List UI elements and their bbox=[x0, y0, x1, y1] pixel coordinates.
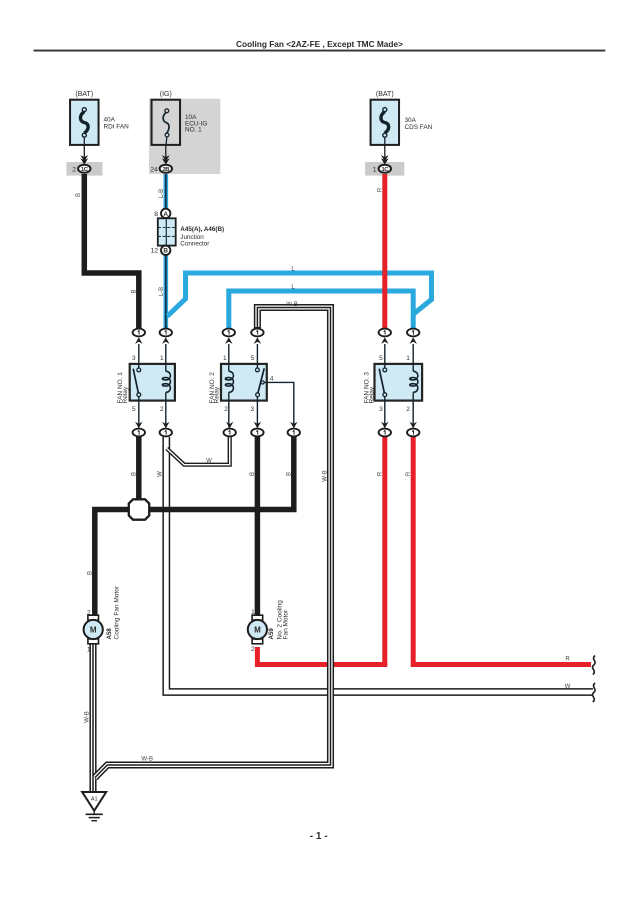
relay2 pin4 lead bbox=[264, 382, 294, 427]
relay1 pin5 lead bbox=[138, 397, 140, 428]
svg-text:(IG): (IG) bbox=[160, 91, 172, 98]
svg-text:2: 2 bbox=[406, 406, 410, 413]
wire L (lower): relay2 pin1 to relay3 pin1 bbox=[229, 291, 413, 328]
svg-text:NO. 1: NO. 1 bbox=[185, 127, 202, 134]
connector arrow relay3 pin1 top bbox=[410, 337, 417, 344]
connector oval relay2 pin5 top bbox=[251, 329, 263, 337]
svg-text:RDI FAN: RDI FAN bbox=[104, 124, 130, 131]
svg-text:B: B bbox=[131, 472, 137, 476]
relay2 switch contacts bbox=[256, 368, 260, 372]
svg-text:Relay: Relay bbox=[122, 386, 129, 403]
gray background block behind ECU-IG fuse bbox=[149, 99, 220, 174]
fuse 30A CDS FAN bbox=[371, 100, 400, 145]
svg-text:3: 3 bbox=[379, 406, 383, 413]
svg-text:A1: A1 bbox=[91, 796, 98, 802]
relay1 pin3 lead bbox=[138, 344, 140, 368]
wire R: relay3 pin2 down bbox=[413, 437, 591, 665]
svg-text:M: M bbox=[254, 625, 261, 634]
connector oval relay3 pin2 bottom bbox=[407, 429, 419, 437]
connector oval relay3 pin1 top bbox=[407, 329, 419, 337]
svg-text:L-B: L-B bbox=[159, 287, 165, 296]
svg-text:B: B bbox=[131, 289, 137, 293]
relay3 coil bbox=[412, 344, 414, 371]
svg-text:Cooling Fan <2AZ-FE , Except T: Cooling Fan <2AZ-FE , Except TMC Made> bbox=[236, 39, 403, 49]
wire B: fuse RDI FAN to relay1 pin3 bbox=[84, 174, 139, 328]
fuse lead ECU-IG bbox=[165, 145, 167, 162]
break symbol R wire bbox=[592, 656, 595, 675]
svg-text:R: R bbox=[565, 656, 570, 662]
svg-text:- 1 -: - 1 - bbox=[310, 831, 328, 842]
svg-text:Cooling Fan Motor: Cooling Fan Motor bbox=[114, 585, 121, 639]
svg-text:12: 12 bbox=[150, 248, 158, 255]
svg-text:R: R bbox=[378, 187, 384, 192]
svg-text:R: R bbox=[378, 471, 384, 476]
wire W-B: relay2 pin5 right, down, to ground bbox=[95, 308, 331, 778]
svg-text:B: B bbox=[163, 248, 168, 255]
svg-text:R: R bbox=[406, 471, 412, 476]
svg-text:3: 3 bbox=[250, 406, 254, 413]
svg-text:1: 1 bbox=[373, 166, 377, 173]
wire L-B: fuse ECU-IG to relay1 pin1 (blue with black stripe) bbox=[164, 174, 169, 328]
svg-text:W: W bbox=[565, 684, 571, 690]
connector arrow relay2 pin2 bottom bbox=[226, 422, 233, 429]
wire W-B: motor1 to ground bbox=[89, 643, 96, 793]
svg-text:W: W bbox=[206, 459, 212, 465]
wire R: motor2 to right break bbox=[257, 647, 387, 665]
connector oval relay2 pin4 bottom bbox=[288, 429, 300, 437]
svg-text:2: 2 bbox=[251, 646, 255, 653]
gray band behind connector 1C (left) bbox=[67, 162, 103, 176]
relay FAN NO.1 box bbox=[130, 364, 175, 401]
svg-text:(BAT): (BAT) bbox=[75, 91, 93, 98]
fuse 40A RDI FAN bbox=[70, 100, 99, 145]
connector oval relay2 pin1 top bbox=[223, 329, 235, 337]
junction connector A45(A) A46(B) box bbox=[158, 218, 176, 245]
connector arrow relay2 pin3 bottom bbox=[254, 422, 261, 429]
connector arrow relay2 pin1 top bbox=[225, 337, 232, 344]
svg-text:A58: A58 bbox=[106, 628, 113, 640]
connector arrow relay1 pin5 bottom bbox=[135, 422, 142, 429]
svg-text:1: 1 bbox=[223, 355, 227, 362]
relay2 pin5 lead bbox=[256, 344, 258, 368]
motor M A58 Cooling Fan Motor bbox=[84, 615, 103, 644]
svg-text:5: 5 bbox=[132, 406, 136, 413]
svg-text:8: 8 bbox=[154, 211, 158, 218]
motor M A59 No.2 Cooling Fan Motor bbox=[248, 615, 267, 644]
svg-text:W-B: W-B bbox=[141, 757, 153, 763]
svg-text:CDS FAN: CDS FAN bbox=[405, 124, 433, 131]
relay2 switch blade bbox=[258, 368, 264, 393]
svg-text:Fan Motor: Fan Motor bbox=[283, 609, 290, 639]
connector arrow relay3 pin5 top bbox=[381, 337, 388, 344]
svg-text:5: 5 bbox=[379, 355, 383, 362]
relay FAN NO.2 box bbox=[221, 364, 267, 401]
fuse 10A ECU-IG NO.1 bbox=[152, 100, 181, 145]
connector arrow relay2 pin5 top bbox=[254, 337, 261, 344]
connector oval relay1 pin2 bottom bbox=[160, 429, 172, 437]
svg-text:L-B: L-B bbox=[159, 189, 165, 198]
connector 1C left (2) bbox=[78, 165, 90, 173]
svg-text:1: 1 bbox=[160, 355, 164, 362]
svg-text:W: W bbox=[158, 471, 164, 477]
relay1 switch contacts bbox=[137, 368, 141, 372]
splice octagon bbox=[129, 499, 149, 519]
wire R: relay3 pin3 down bbox=[382, 437, 387, 665]
relay2 coil bbox=[228, 344, 230, 371]
relay3 pin3 lead bbox=[384, 397, 386, 428]
svg-text:M: M bbox=[90, 625, 97, 634]
svg-text:W-B: W-B bbox=[323, 470, 329, 482]
wire W: relay1 pin2 down, right to break (white wire, double line) bbox=[166, 437, 593, 692]
connector oval relay2 pin2 bottom bbox=[224, 429, 236, 437]
wire B: relay2 pin4 down, splice horizontal, to motor1 bbox=[95, 437, 294, 617]
connector 2B (24) bbox=[160, 165, 172, 173]
svg-text:1: 1 bbox=[87, 647, 91, 654]
connector oval relay1 pin3 top bbox=[133, 329, 145, 337]
junction node A (8) bbox=[161, 209, 170, 218]
svg-text:24: 24 bbox=[150, 166, 158, 173]
svg-text:Connector: Connector bbox=[180, 241, 209, 248]
svg-text:(BAT): (BAT) bbox=[376, 91, 394, 98]
connector arrow relay1 pin3 top bbox=[135, 337, 142, 344]
connector oval relay1 pin1 top bbox=[160, 329, 172, 337]
svg-text:2: 2 bbox=[72, 166, 76, 173]
gray band behind connector 1C (right) bbox=[365, 162, 404, 176]
connector oval relay3 pin3 bottom bbox=[379, 429, 391, 437]
svg-text:1: 1 bbox=[406, 355, 410, 362]
relay1 coil bbox=[165, 344, 167, 371]
connector arrow relay3 pin3 bottom bbox=[381, 422, 388, 429]
svg-text:2: 2 bbox=[160, 406, 164, 413]
wire R: fuse CDS FAN to relay3 pin5 bbox=[382, 174, 387, 328]
svg-text:A59: A59 bbox=[268, 628, 275, 640]
svg-text:3: 3 bbox=[132, 355, 136, 362]
svg-text:2: 2 bbox=[224, 406, 228, 413]
svg-text:Relay: Relay bbox=[214, 386, 221, 403]
fuse lead CDS FAN bbox=[384, 145, 386, 162]
relay FAN NO.3 box bbox=[375, 364, 423, 401]
wire L (upper): branch from L-B to relay3 coil bbox=[167, 273, 431, 316]
svg-text:B: B bbox=[250, 472, 256, 476]
break symbol W wire bbox=[592, 683, 595, 702]
connector 1C right (1) bbox=[379, 165, 391, 173]
svg-text:30A: 30A bbox=[405, 117, 417, 124]
relay2 pin3 lead bbox=[256, 397, 258, 428]
connector oval relay1 pin5 bottom bbox=[133, 429, 145, 437]
svg-text:2: 2 bbox=[87, 610, 91, 617]
svg-text:W-B: W-B bbox=[286, 302, 298, 308]
svg-text:Relay: Relay bbox=[368, 386, 375, 403]
svg-text:B: B bbox=[87, 571, 93, 575]
ground symbol A1 bbox=[82, 792, 106, 821]
relay3 switch contacts bbox=[383, 368, 387, 372]
title rule bbox=[34, 50, 606, 52]
connector oval relay3 pin5 top bbox=[379, 329, 391, 337]
svg-text:B: B bbox=[76, 193, 82, 197]
connector arrow relay1 pin1 top bbox=[162, 337, 169, 344]
svg-text:B: B bbox=[286, 472, 292, 476]
connector arrow relay2 pin4 bottom bbox=[290, 422, 297, 429]
wire B: relay2 pin3 to motor2 bbox=[255, 437, 261, 617]
svg-text:4: 4 bbox=[270, 375, 274, 382]
fuse lead RDI FAN bbox=[83, 145, 85, 162]
junction node B (12) bbox=[161, 246, 170, 255]
connector arrow relay3 pin2 bottom bbox=[410, 422, 417, 429]
connector arrow relay1 pin2 bottom bbox=[162, 422, 169, 429]
connector oval relay2 pin3 bottom bbox=[251, 429, 263, 437]
relay3 pin5 lead bbox=[384, 344, 386, 368]
svg-text:A45(A), A46(B): A45(A), A46(B) bbox=[180, 226, 224, 233]
wire W branch: from W wire to relay2 pin2 bbox=[167, 437, 230, 465]
relay3 switch blade bbox=[379, 369, 384, 394]
svg-text:2B: 2B bbox=[162, 167, 169, 173]
relay1 switch blade bbox=[133, 369, 138, 394]
svg-text:A: A bbox=[163, 211, 168, 218]
svg-text:1: 1 bbox=[251, 609, 255, 616]
svg-text:5: 5 bbox=[251, 355, 255, 362]
wire B: relay1 pin5 to splice octagon bbox=[136, 437, 142, 504]
svg-text:W-B: W-B bbox=[85, 711, 91, 723]
